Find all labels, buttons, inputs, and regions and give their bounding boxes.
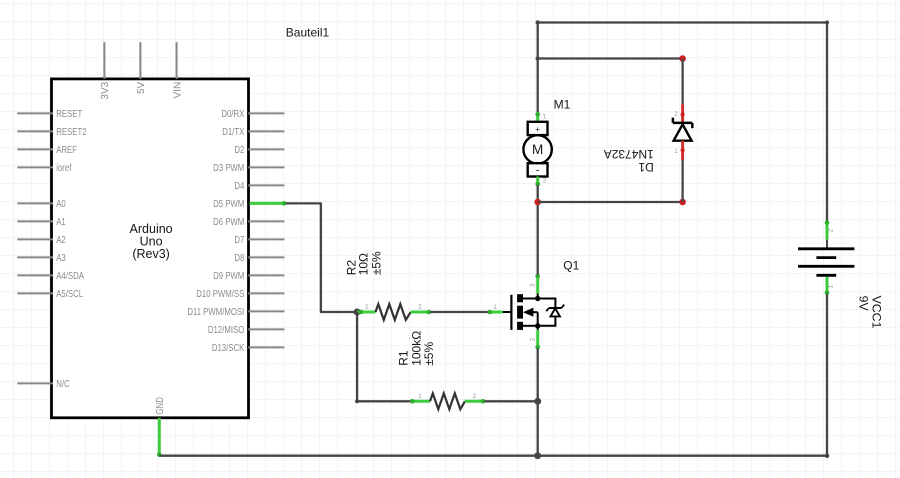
wire battery bottom down (826, 294, 828, 456)
svg-text:1: 1 (542, 113, 546, 120)
svg-text:±5%: ±5% (370, 251, 384, 275)
wire source to node B (537, 348, 539, 401)
svg-text:Bauteil1: Bauteil1 (286, 26, 330, 40)
svg-text:RESET2: RESET2 (56, 126, 86, 137)
label R2 value (345, 251, 384, 275)
svg-text:1: 1 (365, 304, 369, 311)
transistor Q1 (503, 294, 564, 330)
svg-text:1: 1 (418, 393, 422, 400)
svg-text:±5%: ±5% (422, 342, 436, 366)
svg-text:10Ω: 10Ω (356, 253, 370, 275)
svg-text:D6 PWM: D6 PWM (213, 216, 244, 227)
svg-text:D11 PWM/MOSI: D11 PWM/MOSI (187, 306, 244, 317)
wire drain up to motor node (537, 202, 539, 275)
svg-text:A4/SDA: A4/SDA (56, 270, 84, 281)
right pin labels (187, 108, 244, 353)
wire R2 to gate (430, 311, 488, 313)
label D1 value (rotated 180) (604, 147, 654, 174)
wire node A down (356, 312, 358, 401)
node B junction (534, 398, 541, 405)
node ground junction (534, 452, 541, 459)
svg-text:2: 2 (543, 177, 547, 184)
left pins stubs (17, 113, 53, 383)
diode D1 (673, 104, 692, 159)
wire top rail to battery (538, 21, 827, 23)
svg-text:D0/RX: D0/RX (221, 108, 244, 119)
svg-text:2: 2 (827, 228, 834, 232)
svg-text:D8: D8 (234, 252, 244, 263)
wire to R1 (357, 400, 411, 402)
svg-text:9V: 9V (857, 296, 871, 312)
wire motor top vertical (537, 23, 539, 59)
resistor R2 (357, 304, 431, 320)
transistor Q1 gate lead (488, 304, 503, 314)
svg-text:2: 2 (473, 393, 477, 400)
svg-text:D1/TX: D1/TX (222, 126, 244, 137)
wire diode bottom vertical (681, 160, 683, 203)
transistor Q1 drain lead (530, 274, 540, 299)
svg-text:D3 PWM: D3 PWM (213, 162, 244, 173)
node battery top corner (825, 20, 829, 24)
wire node B to ground rail (537, 401, 539, 455)
svg-text:AREF: AREF (56, 144, 77, 155)
svg-text:2: 2 (530, 337, 537, 341)
svg-text:(Rev3): (Rev3) (132, 247, 170, 261)
pin 3V3 (100, 42, 111, 99)
svg-text:+: + (535, 125, 540, 134)
svg-text:D7: D7 (234, 234, 244, 245)
wire ground rail (159, 455, 827, 457)
resistor R1 (410, 393, 485, 409)
label R1 value (397, 331, 437, 366)
svg-text:M: M (532, 142, 543, 157)
Arduino title (130, 222, 173, 261)
pin VIN (172, 42, 183, 98)
node motor-bottom red junction (534, 199, 541, 206)
svg-text:D12/MISO: D12/MISO (208, 324, 244, 335)
module Arduino Uno (Bauteil1) body (52, 79, 249, 418)
svg-text:A0: A0 (56, 198, 66, 209)
svg-text:D13/SCK: D13/SCK (212, 342, 244, 353)
svg-text:1N4732A: 1N4732A (604, 147, 654, 161)
svg-text:A3: A3 (56, 252, 66, 263)
svg-text:1: 1 (493, 304, 497, 311)
pin 5V (136, 42, 147, 94)
svg-text:3: 3 (530, 283, 537, 287)
wire diode top vertical (681, 59, 683, 105)
motor M1 (523, 59, 551, 203)
svg-text:1: 1 (827, 284, 834, 288)
left pin labels (56, 108, 86, 389)
node diode-bottom red junction (679, 199, 686, 206)
svg-text:N/C: N/C (56, 378, 70, 389)
right pins stubs (248, 113, 284, 347)
node top corner (536, 20, 540, 24)
svg-text:ioref: ioref (56, 162, 72, 173)
wire battery right down (826, 23, 828, 222)
svg-text:D9 PWM: D9 PWM (213, 270, 244, 281)
svg-text:A2: A2 (56, 234, 66, 245)
label VCC1 value (rotated 90) (857, 296, 884, 329)
wire GND green lead (157, 418, 162, 457)
node wire corner (536, 56, 540, 60)
node A junction (354, 309, 361, 316)
svg-text:A1: A1 (56, 216, 66, 227)
svg-text:1: 1 (674, 148, 678, 155)
svg-text:2: 2 (418, 304, 422, 311)
node battery bottom corner (825, 453, 830, 458)
wire D5 PWM green lead (250, 201, 287, 206)
svg-text:RESET: RESET (56, 108, 82, 119)
transistor Q1 source lead (530, 326, 540, 350)
svg-text:M1: M1 (554, 97, 571, 111)
wire D5 to node A (286, 203, 357, 312)
svg-text:A5/SCL: A5/SCL (56, 288, 83, 299)
wire lower branch to diode (538, 201, 683, 203)
svg-text:D10 PWM/SS: D10 PWM/SS (196, 288, 244, 299)
svg-text:Q1: Q1 (563, 259, 579, 273)
svg-text:D4: D4 (234, 180, 244, 191)
svg-text:-: - (536, 165, 540, 177)
battery VCC1 (798, 220, 854, 295)
node diode-top red junction (679, 55, 686, 62)
svg-text:D5 PWM: D5 PWM (213, 198, 244, 209)
svg-text:2: 2 (674, 111, 678, 118)
svg-text:D2: D2 (234, 144, 244, 155)
svg-text:3V3: 3V3 (100, 81, 111, 99)
svg-text:GND: GND (155, 397, 166, 415)
wire upper branch to diode (538, 57, 683, 59)
svg-text:VIN: VIN (172, 82, 183, 99)
wire R1 to source node (484, 400, 537, 402)
svg-text:5V: 5V (136, 81, 147, 94)
